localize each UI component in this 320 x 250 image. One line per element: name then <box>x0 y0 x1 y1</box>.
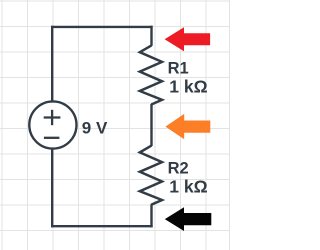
label R1 value 1 kOhm <box>169 77 207 97</box>
label R2 <box>168 159 189 177</box>
wire right upper segment <box>150 26 152 46</box>
label R2 value 1 kOhm <box>169 177 207 197</box>
wire bottom rail <box>51 225 153 227</box>
current arrow middle node (orange) <box>165 114 210 139</box>
wire right middle segment <box>150 104 152 146</box>
voltage source V1 <box>29 101 76 148</box>
svg-text:1 kΩ: 1 kΩ <box>169 77 207 97</box>
label R1 <box>168 59 189 77</box>
current arrow top node (red) <box>165 27 211 51</box>
wire left upper segment <box>51 26 53 102</box>
current arrow bottom node (black) <box>165 207 212 231</box>
svg-text:R2: R2 <box>168 159 189 177</box>
svg-text:R1: R1 <box>168 59 189 77</box>
svg-text:1 kΩ: 1 kΩ <box>169 177 207 197</box>
label 9 V <box>82 118 108 137</box>
resistor R1 <box>140 45 162 104</box>
wire right lower segment <box>150 204 152 227</box>
svg-text:9 V: 9 V <box>82 118 108 137</box>
wire left lower segment <box>51 149 53 228</box>
wire top rail <box>51 26 153 28</box>
resistor R2 <box>140 146 162 205</box>
